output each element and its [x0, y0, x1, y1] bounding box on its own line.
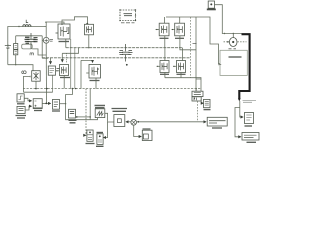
resistor label 1 ohm — [229, 48, 237, 50]
mosfet Q7 label — [160, 73, 169, 75]
scope O1 title above — [97, 132, 104, 134]
current measurement CM1 circle — [42, 39, 43, 41]
wire Q6 source down — [180, 17, 201, 91]
wire riser right of Q4 — [74, 48, 76, 89]
mosfet Q4 block (boost lower) — [60, 65, 69, 76]
block T1 title above — [143, 128, 151, 130]
C1 right value label smudge — [33, 38, 37, 42]
inductor label L — [26, 20, 28, 23]
wire vertical to current measurement — [45, 22, 47, 37]
wire Q8 gate tick — [173, 65, 177, 67]
controller I1 label — [212, 127, 222, 129]
X1 left label CO — [22, 71, 26, 74]
wire long signal line to controller — [138, 121, 206, 123]
wire J2 to K1 — [201, 99, 203, 103]
mosfet Q7 block — [160, 61, 169, 73]
wire s-bend to measurement — [32, 49, 46, 55]
wire V1 down — [52, 75, 54, 92]
wire SW1 to G and scope O — [105, 113, 114, 122]
scope SC1 label — [207, 8, 216, 10]
PI block J2 — [192, 97, 201, 101]
wire feedback to display blocks — [240, 101, 243, 117]
DC source E (battery) — [7, 28, 9, 45]
G1 title above two lines — [112, 109, 128, 112]
wire Q7 gate tick — [157, 65, 161, 67]
wire DC bus top rail — [66, 47, 183, 49]
wire Q4 gate arrows — [61, 53, 63, 62]
PI controller PI1 label — [52, 110, 60, 112]
wire bottom-left rail — [8, 65, 33, 71]
wire R1 bottom — [15, 55, 17, 65]
wire Q2 source down to bus — [88, 35, 90, 48]
speed text smudge — [243, 101, 257, 103]
wire Q1 gate loop — [62, 17, 88, 24]
mosfet Q3 label — [90, 80, 100, 82]
wire right bridge top feed — [166, 17, 220, 64]
scope SC2 block — [87, 130, 93, 141]
node dot below C2 — [126, 64, 128, 66]
wire ST1 to sum — [24, 98, 31, 101]
scope O1 block — [97, 134, 103, 145]
wire long measurement dashed bus — [23, 88, 201, 90]
wire thick feedback path — [239, 34, 249, 98]
display block D1 (speed) — [245, 113, 254, 124]
motor M1 circle — [229, 38, 237, 47]
dc motor text — [229, 56, 242, 58]
scope O1 label below — [96, 145, 104, 147]
wire Q4 gate tick — [56, 70, 60, 72]
wire Q3 gate tick — [86, 72, 89, 74]
C2 right label smudge — [129, 51, 133, 55]
wire top rail from source to inductor — [8, 27, 44, 28]
wire inner top rail — [16, 35, 43, 37]
wire dashed branch to scope SC2 — [85, 89, 87, 136]
wire Q1 measurement output down — [70, 39, 72, 89]
block J1 (mux) — [192, 91, 203, 96]
voltmeter V1 label — [57, 68, 60, 70]
display block D1 label — [245, 125, 253, 127]
step block ST1 — [17, 94, 24, 102]
wire Q6 gate tick — [172, 29, 175, 31]
sawtooth SW1 title above — [95, 106, 106, 108]
mosfet Q1 label — [59, 41, 70, 43]
constant block CN1 — [17, 106, 25, 113]
constant block CN1 label — [16, 116, 27, 119]
sum block SUM1 label — [34, 110, 42, 112]
mosfet Q1 (boost switch) block — [58, 24, 70, 39]
wire gate dashed riser — [190, 17, 192, 78]
wire SW1 riser — [90, 89, 97, 120]
block T1 — [142, 130, 152, 140]
gate label smudge — [193, 43, 197, 45]
wire motor top stub — [232, 34, 234, 38]
wire SUM1 to PI1 — [42, 102, 50, 104]
wire CM1 down — [45, 43, 47, 103]
controller block I1 — [207, 117, 227, 126]
display block D2 (wide) — [242, 133, 259, 141]
PI controller block PI1 — [52, 100, 59, 110]
display block D2 label — [247, 141, 257, 143]
powergui label — [121, 22, 135, 24]
voltmeter V1 block — [48, 66, 55, 75]
wire dashed through motor — [224, 41, 247, 43]
wire PI1 output stub — [60, 103, 66, 105]
mosfet Q8 block — [177, 61, 186, 73]
wire Q5 source to bus — [164, 36, 166, 48]
scope SC2 label — [86, 143, 95, 145]
wire Q3 gate loop — [81, 60, 93, 62]
wire rounded loop under C1 — [22, 44, 33, 49]
wire CN1 to sum — [25, 106, 31, 110]
mosfet Q5 label — [160, 37, 169, 39]
node gate junction dot — [86, 23, 88, 25]
mosfet Q4 label — [60, 77, 70, 79]
C2 left label smudge — [119, 51, 123, 55]
product circle H1 — [131, 120, 137, 126]
wire H1 down to block T1 — [134, 125, 142, 136]
wire right leg mid connections — [165, 48, 183, 61]
wire H to G arrow — [126, 121, 131, 123]
capacitor C1 — [30, 33, 32, 49]
mosfet Q2 block (left leg top) — [85, 24, 94, 35]
wire Z-connector from measurement bus — [66, 89, 91, 120]
measurement block X1 (left lower) — [32, 71, 41, 82]
resistor R1 — [14, 44, 18, 50]
step block ST1 label — [17, 103, 25, 105]
mosfet Q6 label — [175, 37, 184, 39]
wire dashed PI2 branch — [197, 101, 199, 122]
comparator CMP1 label — [69, 120, 77, 123]
C1 left value label smudge — [25, 37, 30, 43]
node junction dot top-left — [18, 26, 19, 27]
node dots on measurement bus — [35, 88, 37, 90]
node label m — [30, 53, 34, 55]
scope K1 label — [204, 109, 211, 111]
armature box left tick — [219, 63, 221, 65]
wire Q5 gate tick — [156, 29, 160, 31]
mosfet Q6 block — [175, 23, 185, 36]
comparator block CMP1 — [69, 109, 76, 118]
wire return line left — [24, 91, 53, 93]
voltmeter V1 arrow feed — [50, 58, 52, 64]
wire bridge bottom bar — [165, 73, 201, 92]
sawtooth block SW1 — [95, 109, 105, 118]
armature box — [220, 50, 247, 75]
wire scope to motor — [215, 5, 242, 34]
wire bottom inner stub — [42, 57, 48, 59]
capacitor C2 (DC link) — [125, 44, 127, 62]
mosfet Q8 label — [177, 73, 186, 75]
gate signal block G1 — [114, 115, 125, 127]
scope SC1 block (top right) — [208, 1, 214, 8]
mosfet Q5 block — [159, 23, 169, 36]
scope K1 block — [204, 99, 211, 107]
wire CMP1 output — [76, 116, 91, 118]
wire right leg of inner loop — [41, 36, 43, 58]
wire X1 output down — [35, 81, 37, 88]
wire Q4 bottom down — [63, 76, 65, 89]
wire J1 feed stub — [195, 89, 197, 92]
node H1 junction — [137, 121, 139, 123]
wire Q1 drain down — [65, 39, 67, 48]
inductor L — [23, 25, 31, 27]
wire X1 input — [23, 76, 30, 78]
sum block SUM1 — [33, 99, 42, 109]
powergui block — [120, 10, 136, 21]
wire DC bus bottom rail — [42, 57, 190, 59]
mosfet Q3 block (left leg bottom) — [89, 65, 101, 79]
resistor R1 branch wire — [15, 36, 17, 44]
wire Q3 bottom down — [95, 78, 97, 89]
